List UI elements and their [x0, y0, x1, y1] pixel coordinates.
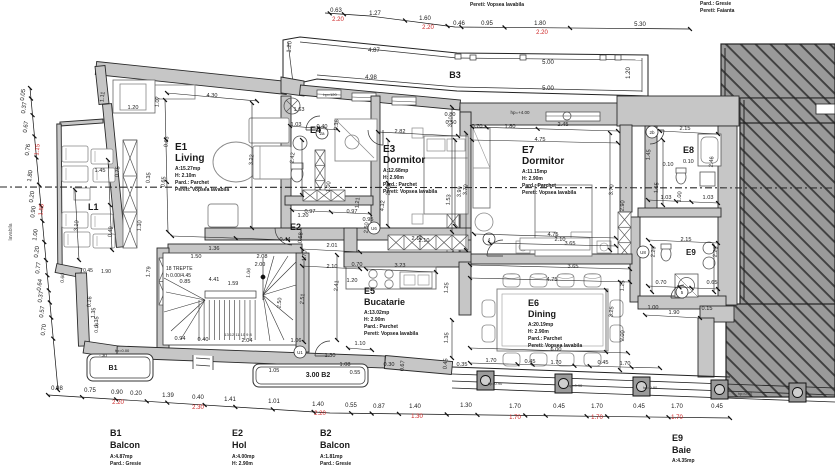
svg-text:0.55: 0.55 — [350, 370, 361, 376]
svg-text:4.41: 4.41 — [209, 277, 220, 283]
svg-text:4.75: 4.75 — [535, 137, 546, 143]
svg-text:2.20: 2.20 — [332, 17, 344, 23]
E9 toilet — [661, 244, 671, 261]
terrace dim vline 3.10 — [75, 190, 79, 260]
svg-text:A:4.35mp: A:4.35mp — [672, 458, 695, 464]
svg-text:1.80: 1.80 — [505, 124, 516, 130]
svg-text:0.10: 0.10 — [683, 159, 694, 165]
door bubble U1 — [294, 346, 306, 358]
svg-text:2.20: 2.20 — [112, 400, 124, 406]
svg-text:1.40: 1.40 — [312, 402, 324, 408]
kitchen north wall — [344, 252, 471, 267]
legend E9 — [672, 433, 695, 464]
svg-text:hp=0.90: hp=0.90 — [738, 391, 753, 396]
svg-text:Pard.: Gresie: Pard.: Gresie — [700, 1, 731, 7]
E9 dim hline 2.15 — [648, 240, 718, 243]
north wall living (slanted) — [95, 62, 287, 95]
E2 dim vline — [336, 255, 338, 340]
svg-text:2.15: 2.15 — [681, 237, 692, 243]
svg-text:2.20: 2.20 — [314, 411, 326, 417]
living dim hline south — [172, 236, 288, 240]
door bubble 2a — [316, 127, 328, 139]
svg-text:2.90: 2.90 — [620, 200, 627, 211]
E3 dim vline 1 — [387, 140, 389, 226]
L1 dim vline — [108, 160, 112, 250]
E7 dim hline 4.75 low — [474, 234, 616, 238]
svg-text:3.00 B2: 3.00 B2 — [306, 372, 331, 379]
svg-text:0.68: 0.68 — [298, 232, 305, 243]
svg-text:Bucatarie: Bucatarie — [364, 297, 405, 307]
svg-text:0.55: 0.55 — [345, 403, 357, 409]
svg-text:0.46: 0.46 — [453, 21, 465, 27]
E7 dim vline left — [465, 133, 467, 250]
svg-text:E2: E2 — [290, 222, 301, 232]
svg-text:1.20: 1.20 — [287, 40, 294, 53]
svg-text:2.00: 2.00 — [620, 330, 627, 341]
door bubble 2b — [646, 126, 658, 138]
svg-text:A:1.81mp: A:1.81mp — [320, 454, 343, 460]
svg-text:0.97: 0.97 — [347, 209, 358, 215]
door E7 — [487, 240, 503, 256]
svg-text:0.90: 0.90 — [111, 390, 123, 396]
E3 dim vline 2 — [454, 140, 456, 226]
svg-text:1.59: 1.59 — [228, 281, 239, 287]
svg-text:0.70: 0.70 — [352, 262, 363, 268]
living rug circle — [213, 142, 259, 182]
room label E5 — [364, 286, 418, 337]
E7 dim hline 4.75 — [472, 140, 618, 143]
wardrobe E7 — [473, 128, 490, 208]
E6 dim vline 3.25 — [605, 290, 607, 352]
svg-text:0.95: 0.95 — [481, 21, 493, 27]
E3 dim hline 2.82 — [378, 132, 458, 136]
svg-text:1.06: 1.06 — [291, 338, 302, 344]
pillar 4 — [711, 380, 728, 399]
SE corner wall step — [700, 306, 734, 322]
svg-text:E9: E9 — [672, 433, 683, 443]
svg-text:1.25: 1.25 — [444, 282, 451, 293]
svg-text:E9: E9 — [686, 248, 696, 257]
staircase — [163, 253, 296, 345]
svg-text:B3: B3 — [449, 70, 461, 80]
E4 radiator — [315, 150, 325, 196]
south wall door opening — [193, 355, 213, 370]
E9 dim vline left — [651, 246, 653, 292]
interior dims — [74, 91, 720, 371]
svg-text:2.15: 2.15 — [680, 126, 691, 132]
E8 west wall — [645, 126, 657, 212]
svg-text:H: 2.90m: H: 2.90m — [232, 461, 253, 467]
svg-text:H: 2.90m: H: 2.90m — [364, 317, 385, 323]
adjacent building hatched block upper — [721, 44, 835, 98]
kitchen-dining passage vline — [451, 320, 453, 358]
door E8 — [650, 130, 664, 144]
north wall E7 — [460, 103, 620, 125]
svg-text:1.30: 1.30 — [411, 414, 423, 420]
E9bath south wall — [638, 296, 726, 309]
svg-text:hp=0.90: hp=0.90 — [643, 385, 658, 390]
svg-text:Pereti: Faianta: Pereti: Faianta — [700, 8, 735, 14]
svg-text:H: 2.10m: H: 2.10m — [175, 173, 196, 179]
svg-text:0.35: 0.35 — [146, 172, 153, 183]
E9 sinks — [703, 242, 715, 269]
E7 west wall — [460, 112, 471, 262]
svg-text:A:15.27mp: A:15.27mp — [175, 166, 200, 172]
svg-text:2.01: 2.01 — [327, 243, 338, 249]
svg-text:2.50: 2.50 — [277, 297, 284, 308]
svg-text:2.46: 2.46 — [709, 156, 716, 167]
svg-text:0.45: 0.45 — [598, 360, 609, 366]
door E9 — [671, 285, 684, 298]
svg-text:1.63: 1.63 — [294, 107, 305, 113]
E7 dim hline 3.65 — [490, 243, 616, 246]
svg-text:Pard.: Parchet: Pard.: Parchet — [383, 182, 417, 188]
svg-text:Pard.: Parchet: Pard.: Parchet — [522, 183, 556, 189]
E3-E7 divider wall — [460, 112, 471, 232]
E7 east wall — [620, 125, 632, 212]
svg-text:4.98: 4.98 — [365, 75, 377, 81]
kitchen south wall — [384, 356, 452, 375]
svg-text:18 TREPTE: 18 TREPTE — [166, 266, 193, 272]
pillar 1 — [477, 371, 494, 390]
balcony B1 — [87, 354, 153, 381]
door bubble 5 — [676, 286, 688, 298]
E8-E9 divider wall — [638, 208, 721, 217]
window E7 north — [546, 112, 600, 121]
svg-text:1.20: 1.20 — [128, 105, 139, 111]
svg-text:3.70: 3.70 — [609, 184, 616, 195]
svg-text:2.04: 2.04 — [242, 338, 253, 344]
west wall top stub — [95, 66, 109, 105]
living closet — [113, 80, 155, 113]
svg-text:0.40: 0.40 — [198, 337, 209, 343]
svg-text:1.60: 1.60 — [419, 16, 431, 22]
dining table — [497, 289, 608, 351]
svg-text:1.11: 1.11 — [99, 91, 106, 102]
svg-text:0.45: 0.45 — [553, 404, 565, 410]
svg-text:2.10: 2.10 — [412, 236, 423, 242]
svg-text:Pereti: Vopsea lavabila: Pereti: Vopsea lavabila — [383, 189, 437, 195]
svg-text:1.80: 1.80 — [534, 21, 546, 27]
svg-text:1.35: 1.35 — [444, 332, 451, 343]
svg-text:-.30: -.30 — [99, 353, 107, 358]
svg-text:Pereti: Vopsea lavabila: Pereti: Vopsea lavabila — [528, 343, 582, 349]
svg-text:1.06: 1.06 — [246, 268, 253, 278]
svg-text:0.45: 0.45 — [633, 404, 645, 410]
svg-text:0.98: 0.98 — [51, 386, 63, 392]
door E4 — [306, 116, 320, 130]
svg-text:1.08: 1.08 — [340, 362, 351, 368]
E6 dim hline 6.00 — [470, 348, 628, 353]
svg-text:2.10: 2.10 — [555, 237, 566, 243]
svg-text:hp=+4.00: hp=+4.00 — [510, 110, 530, 115]
svg-text:0.15: 0.15 — [702, 306, 713, 312]
svg-text:1.45: 1.45 — [95, 168, 106, 174]
E4 west wall (living east) — [281, 96, 291, 235]
section line — [0, 187, 835, 188]
svg-text:0.67: 0.67 — [400, 360, 407, 371]
lower west wall 2 — [76, 273, 90, 346]
svg-text:A:12.68mp: A:12.68mp — [383, 168, 408, 174]
door entrance south — [315, 341, 330, 356]
adjacent building hatched block main — [726, 123, 835, 397]
svg-text:1.21: 1.21 — [355, 197, 362, 208]
corridor north wall / E3 south — [300, 228, 471, 240]
svg-text:2.20: 2.20 — [713, 246, 720, 257]
svg-text:E3: E3 — [383, 144, 396, 155]
E4 dim vline — [301, 140, 303, 195]
bed E7 — [516, 185, 611, 256]
svg-text:1.70: 1.70 — [509, 404, 521, 410]
living dim line 4.30 — [167, 93, 257, 101]
stair east wall — [296, 253, 309, 352]
svg-text:1.79: 1.79 — [146, 266, 153, 277]
svg-text:0.80: 0.80 — [445, 112, 456, 118]
svg-text:E5: E5 — [364, 286, 375, 296]
svg-text:hp=120: hp=120 — [323, 92, 337, 97]
door living-corridor — [275, 228, 292, 245]
stair west window strip — [159, 258, 169, 305]
svg-text:0.16: 0.16 — [87, 296, 94, 307]
svg-text:U8: U8 — [640, 250, 646, 255]
E7 east radiator — [618, 212, 631, 258]
stair north wall — [168, 244, 302, 254]
svg-text:Pard.: Parchet: Pard.: Parchet — [364, 324, 398, 330]
svg-text:1.27: 1.27 — [369, 11, 381, 17]
legend E2 — [232, 428, 255, 467]
svg-text:Pard.: Parchet: Pard.: Parchet — [528, 336, 562, 342]
svg-text:0.85: 0.85 — [180, 279, 191, 285]
svg-text:Hol: Hol — [232, 440, 247, 450]
north wall E8 thick block — [617, 96, 739, 126]
living west wall — [103, 104, 126, 248]
svg-text:2.08: 2.08 — [257, 254, 268, 260]
svg-text:Pard.: Gresie: Pard.: Gresie — [110, 461, 141, 467]
north wall junction — [281, 77, 304, 96]
svg-text:Baie: Baie — [672, 445, 691, 455]
adjacent building hatched block band — [740, 98, 835, 123]
E4-E3 divider wall — [371, 96, 380, 232]
svg-text:1.10: 1.10 — [355, 341, 366, 347]
svg-text:2.00: 2.00 — [255, 262, 266, 268]
room label E6 — [528, 298, 582, 349]
left dim labels — [8, 88, 111, 358]
svg-text:1.00: 1.00 — [326, 181, 333, 192]
terrace L1 furniture — [62, 146, 115, 248]
E8 toilet — [676, 168, 686, 184]
svg-text:E1: E1 — [175, 142, 188, 153]
legend B2 — [320, 428, 351, 467]
lower west wall 3 — [83, 341, 119, 358]
E8 dim hline 1.03 — [648, 200, 718, 203]
svg-text:A:4.00mp: A:4.00mp — [232, 454, 255, 460]
svg-text:0.75: 0.75 — [84, 388, 96, 394]
living armchair — [208, 204, 238, 227]
svg-text:1.50: 1.50 — [191, 254, 202, 260]
stairs label — [166, 262, 306, 337]
north dim hline 1.03 0.40 — [290, 126, 338, 130]
E4 south radiator — [303, 190, 345, 201]
svg-text:0.40: 0.40 — [192, 395, 204, 401]
svg-text:1.70: 1.70 — [486, 358, 497, 364]
E9 dim hline 1.90 — [645, 315, 700, 318]
svg-text:0.10: 0.10 — [663, 162, 674, 168]
svg-text:E7: E7 — [522, 145, 535, 156]
svg-text:2.20: 2.20 — [422, 25, 434, 31]
E8 bathtub — [698, 134, 721, 166]
svg-text:hp=0.90: hp=0.90 — [488, 381, 503, 386]
svg-text:0.60: 0.60 — [60, 273, 67, 283]
svg-text:A:4.87mp: A:4.87mp — [110, 454, 133, 460]
svg-text:A:13.02mp: A:13.02mp — [364, 310, 389, 316]
top dim labels — [330, 8, 646, 36]
svg-text:3.23: 3.23 — [395, 263, 406, 269]
bottom dimension chain — [46, 393, 732, 420]
svg-text:Pereti: Vopsea lavabila: Pereti: Vopsea lavabila — [364, 331, 418, 337]
legend B1 — [110, 428, 141, 467]
svg-text:0.70: 0.70 — [656, 280, 667, 286]
svg-text:0.95: 0.95 — [363, 217, 374, 223]
E7 dim vline right — [609, 133, 611, 250]
svg-text:0.45: 0.45 — [525, 359, 536, 365]
living cabinet — [150, 85, 195, 99]
svg-text:B2: B2 — [320, 428, 332, 438]
E4 sink — [293, 136, 307, 150]
svg-text:Living: Living — [175, 153, 204, 164]
svg-text:U1: U1 — [297, 350, 303, 355]
svg-text:Dormitor: Dormitor — [522, 156, 564, 167]
living sofa — [249, 118, 291, 179]
svg-text:A:20.19mp: A:20.19mp — [528, 322, 553, 328]
radiator strip 2.10 — [388, 235, 468, 250]
E4 toilet — [291, 163, 303, 182]
svg-text:2.50: 2.50 — [364, 222, 371, 233]
E3-E7 chain vline — [451, 107, 453, 232]
svg-text:2.51: 2.51 — [300, 293, 307, 304]
E6 dim hline 4.75 — [470, 278, 630, 282]
svg-text:Dining: Dining — [528, 309, 556, 319]
svg-text:5.30: 5.30 — [634, 22, 646, 28]
svg-text:E8: E8 — [683, 145, 694, 155]
svg-text:0.75: 0.75 — [115, 166, 122, 177]
svg-text:1.70: 1.70 — [509, 415, 521, 421]
svg-text:5.00: 5.00 — [542, 60, 554, 66]
kitchen east wall — [459, 262, 471, 315]
E4 dim hline 0.97 — [292, 210, 370, 214]
svg-text:0.35: 0.35 — [457, 362, 468, 368]
svg-text:0.63: 0.63 — [330, 8, 342, 14]
E8 dim hline 2.15 — [660, 131, 718, 134]
svg-text:E4: E4 — [310, 125, 321, 135]
E7 south wall — [470, 254, 632, 264]
pillar 2 — [555, 374, 572, 393]
svg-text:2.30: 2.30 — [192, 405, 204, 411]
dining chairs — [482, 274, 623, 367]
svg-text:0.94: 0.94 — [175, 336, 186, 342]
svg-text:0.45: 0.45 — [711, 404, 723, 410]
svg-text:5.00: 5.00 — [542, 86, 554, 92]
window north 2 — [352, 93, 376, 101]
svg-text:Balcon: Balcon — [320, 440, 350, 450]
stair dim vline 2.51 — [303, 258, 305, 342]
E5 dim hline 3.23 — [366, 269, 436, 272]
svg-text:1.30: 1.30 — [325, 353, 336, 359]
bottom dim labels — [51, 386, 723, 421]
svg-text:1.40: 1.40 — [409, 404, 421, 410]
svg-text:0.87: 0.87 — [373, 404, 385, 410]
dining side cabinet — [520, 238, 590, 250]
svg-text:1.36: 1.36 — [209, 246, 220, 252]
pillar 5 — [789, 383, 806, 402]
E6 dim hline 3.65 — [470, 265, 630, 269]
svg-text:1.65: 1.65 — [654, 182, 661, 193]
svg-text:3.65: 3.65 — [565, 241, 576, 247]
dining east wall — [698, 318, 714, 377]
svg-text:2.42: 2.42 — [290, 152, 297, 163]
hp annotations — [115, 92, 753, 396]
svg-text:E6: E6 — [528, 298, 539, 308]
svg-text:1.20: 1.20 — [347, 278, 358, 284]
E9 shower — [675, 274, 698, 297]
terrace L1 west wall — [57, 124, 62, 268]
bed E3 — [412, 128, 468, 224]
svg-text:1.00: 1.00 — [677, 191, 684, 202]
E4 south wall — [285, 196, 373, 205]
svg-text:Pereti: Vopsea lavabila: Pereti: Vopsea lavabila — [175, 187, 229, 193]
kitchen counter — [346, 267, 436, 289]
svg-text:Pard.: Gresie: Pard.: Gresie — [320, 461, 351, 467]
svg-text:4.30: 4.30 — [207, 93, 218, 99]
svg-text:1.41: 1.41 — [224, 397, 236, 403]
svg-text:13 12 11 10 9 8: 13 12 11 10 9 8 — [224, 332, 252, 337]
room label E7 — [522, 145, 576, 196]
E5 side radiator — [447, 214, 459, 258]
svg-text:U6: U6 — [371, 226, 377, 231]
svg-text:Pard.: Parchet: Pard.: Parchet — [175, 180, 209, 186]
svg-text:2.10: 2.10 — [327, 264, 338, 270]
svg-text:1.90: 1.90 — [101, 269, 111, 275]
svg-text:0.45: 0.45 — [443, 358, 450, 369]
svg-text:3.25: 3.25 — [609, 306, 616, 317]
svg-text:3.65: 3.65 — [568, 264, 579, 270]
svg-text:1.30: 1.30 — [460, 403, 472, 409]
svg-text:1.70: 1.70 — [591, 404, 603, 410]
living south wall — [205, 228, 301, 240]
svg-text:2b: 2b — [649, 130, 655, 135]
svg-text:1.05: 1.05 — [269, 368, 280, 374]
top annotations — [470, 1, 735, 14]
E6 dim vline 2.00 — [619, 282, 621, 370]
terrace L1 north wall — [60, 119, 103, 126]
armchair E7 — [475, 213, 493, 231]
svg-text:B1: B1 — [110, 428, 122, 438]
E4 shower — [284, 98, 300, 114]
svg-text:E2: E2 — [232, 428, 243, 438]
svg-text:L1: L1 — [88, 202, 99, 212]
svg-text:1.30: 1.30 — [137, 220, 144, 231]
door bubble 4 — [483, 233, 495, 245]
svg-text:H: 2.90m: H: 2.90m — [528, 329, 549, 335]
svg-text:1.90: 1.90 — [669, 310, 680, 316]
svg-text:0.45: 0.45 — [83, 268, 93, 274]
svg-text:0.30: 0.30 — [384, 362, 395, 368]
svg-text:hp=0.90: hp=0.90 — [568, 383, 583, 388]
living desk — [335, 119, 377, 161]
svg-text:hp=0.00: hp=0.00 — [115, 348, 130, 353]
room label E3 — [383, 144, 437, 195]
E5 dim hline 1.10 — [348, 348, 372, 350]
door E3 — [368, 130, 383, 145]
